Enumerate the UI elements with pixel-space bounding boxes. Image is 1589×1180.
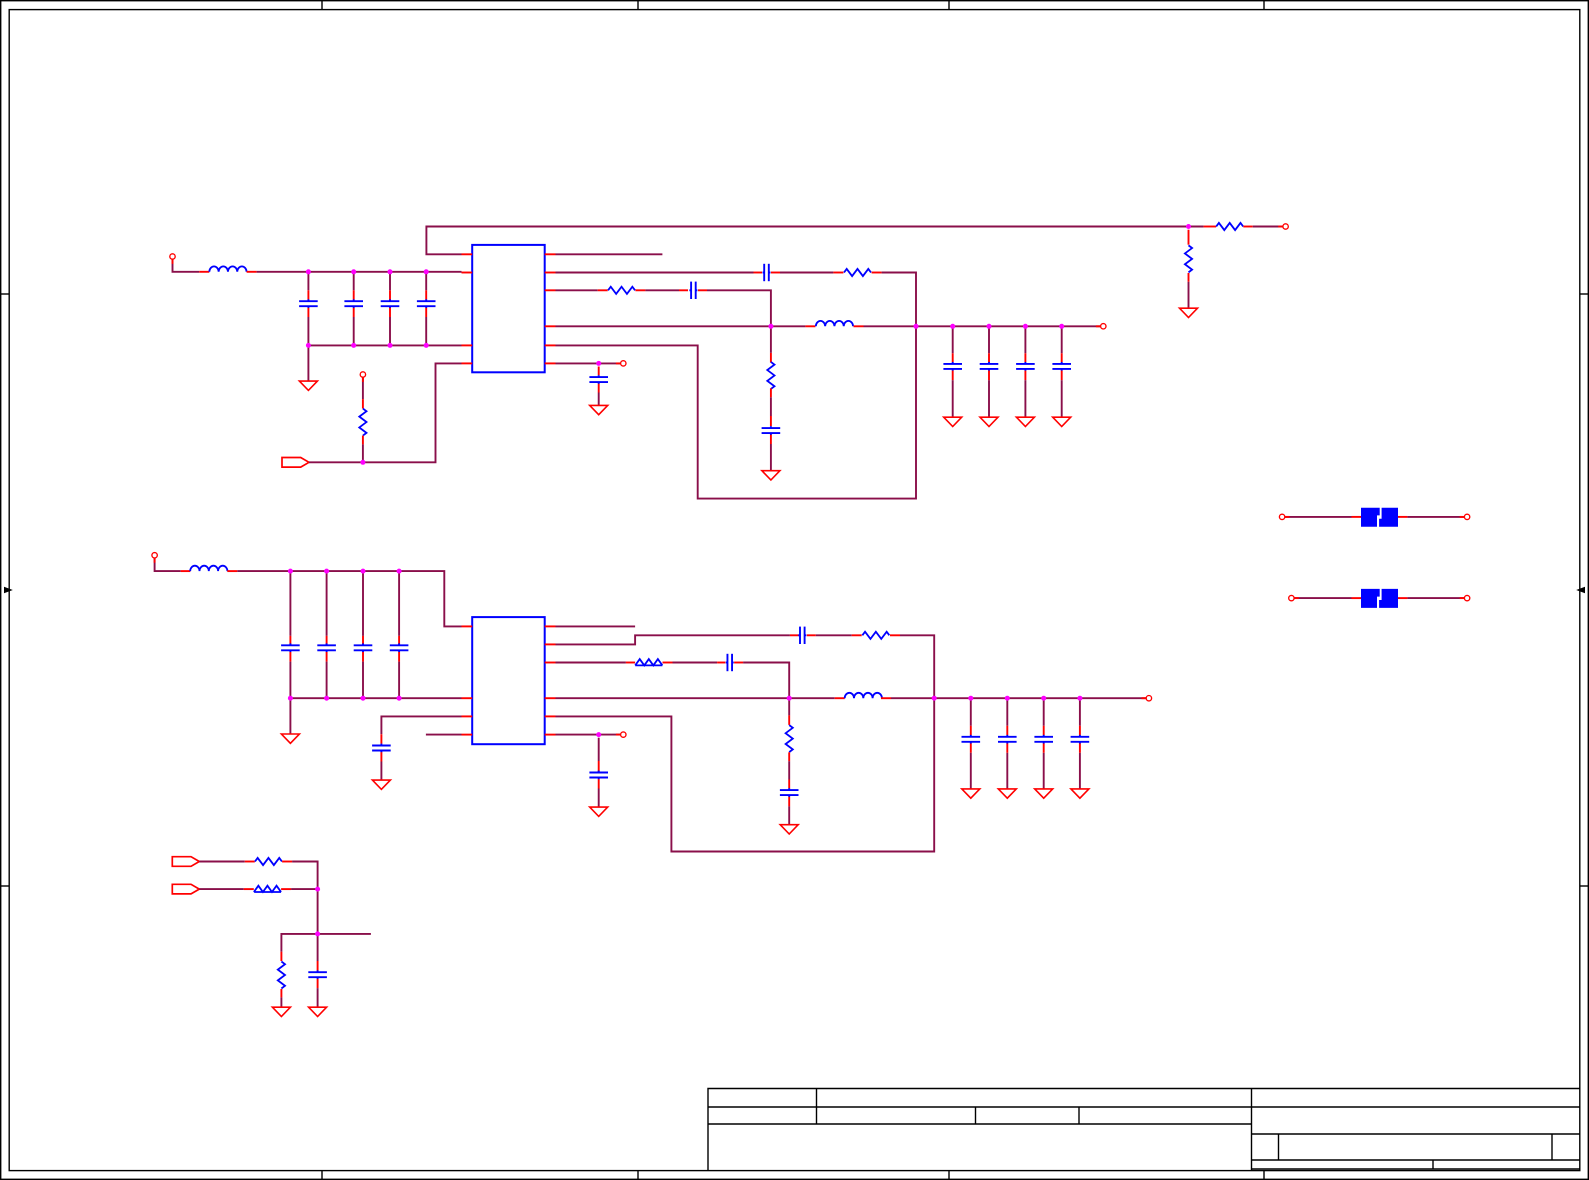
wire C16 top lead (398, 571, 400, 636)
terminal TP4 (616, 734, 621, 736)
wire U2 pin7 to R8 (556, 662, 626, 664)
title block left cell divider A (816, 1089, 818, 1125)
wire lower output rail caps (934, 697, 1146, 699)
resistor R4 (844, 269, 871, 276)
terminal NT1 right (1460, 516, 1465, 518)
ground GND2 (1180, 308, 1198, 317)
border centre arrow left (4, 587, 13, 593)
border zone tick top 1 (321, 1, 323, 10)
title block left row line 2 (708, 1123, 1252, 1125)
wire input rail upper (257, 271, 462, 273)
capacitor C16 (390, 643, 409, 652)
title block right row line 3 (1252, 1159, 1581, 1161)
inductor L3 pin 2 (227, 570, 237, 572)
wire C10 top lead (1061, 326, 1063, 353)
capacitor C2 pin 1 (353, 290, 355, 299)
resistor R10 (255, 858, 282, 865)
wire R4 to output node (882, 273, 916, 327)
wire NT2 left lead (1294, 597, 1351, 599)
wire U1 pin5 stub net (556, 253, 663, 255)
capacitor C8 pin 1 (988, 353, 990, 362)
wire U2 pin3 to C25 (381, 716, 461, 734)
wire C13 bottom lead (289, 662, 291, 699)
ground GND13 (998, 789, 1016, 798)
capacitor C23 (780, 788, 799, 797)
title block right row line 4 (1252, 1168, 1581, 1170)
ground GND9 (281, 734, 299, 743)
capacitor C23 pin 2 (788, 797, 790, 807)
junction J2 J3 (315, 887, 320, 892)
U1 pin 3 stub (left) (462, 344, 473, 346)
wire R7 to loop (900, 635, 934, 698)
wire C15 bottom lead (362, 662, 364, 699)
capacitor C16 pin 1 (398, 636, 400, 645)
capacitor C21 (1034, 735, 1053, 744)
resistor R8 pin 2 (663, 662, 673, 664)
capacitor C3 (381, 299, 400, 308)
junction input rail C1 (306, 269, 311, 274)
wire C17 to R7 (816, 634, 852, 636)
junction node A (768, 324, 773, 329)
capacitor C18 pin 1 (717, 662, 725, 664)
junction lower ground rail C13 (288, 696, 293, 701)
wire C8 bottom lead (988, 380, 990, 417)
capacitor C14 pin 1 (326, 636, 328, 645)
resistor R11 pin 1 (244, 888, 254, 890)
wire C26 to ground (317, 988, 319, 1007)
capacitor C4 pin 2 (425, 308, 427, 317)
inductor L1 pin 1 (199, 271, 209, 273)
wire C20 top lead (1006, 698, 1008, 726)
wire C1 top lead (307, 272, 309, 291)
wire L2 to output junction (864, 325, 917, 327)
capacitor C24 pin 2 (598, 779, 600, 788)
capacitor C24 (589, 771, 608, 780)
wire R2 to ground (1188, 282, 1190, 308)
wire C3 bottom lead (389, 317, 391, 345)
wire divider node stub right (318, 933, 371, 935)
junction pin10 C24 (596, 732, 601, 737)
capacitor C11 (762, 426, 781, 435)
capacitor C17 pin 1 (790, 634, 799, 636)
wire U1 pin9 sense loop (556, 326, 917, 498)
capacitor C15 pin 2 (362, 652, 364, 662)
resistor R7 pin 1 (852, 634, 862, 636)
title block right cell divider A (1278, 1134, 1280, 1160)
capacitor C10 pin 1 (1061, 353, 1063, 362)
wire U1 pin1 feedback top (426, 227, 1203, 255)
capacitor C6 (689, 282, 697, 299)
inductor L2 pin 1 (805, 325, 815, 327)
junction input rail C4 (424, 269, 429, 274)
wire R5 to C6 (645, 289, 679, 291)
wire R8 to C18 (673, 662, 718, 664)
wire L4 to loop junction (891, 697, 934, 699)
resistor R3 pin 1 (1204, 226, 1217, 228)
wire C15 top lead (362, 571, 364, 636)
capacitor C21 pin 1 (1043, 726, 1045, 735)
capacitor C19 pin 1 (970, 726, 972, 735)
border zone tick bottom 1 (321, 1171, 323, 1180)
resistor R4 pin 1 (833, 272, 843, 274)
junction lower ground rail C16 (397, 696, 402, 701)
terminal VIN1 (172, 259, 174, 264)
resistor R12 (278, 962, 285, 989)
wire C25 to ground (380, 762, 382, 781)
wire C7 bottom lead (952, 380, 954, 417)
ground GND4 (980, 417, 998, 426)
junction input rail C2 (351, 269, 356, 274)
junction lower rail C15 (361, 569, 366, 574)
capacitor C8 pin 2 (988, 371, 990, 381)
wire divider node to R12 (281, 934, 317, 952)
junction ground rail C2 (351, 343, 356, 348)
wire J1 to U1 pin 4 (309, 363, 462, 462)
connector J3 (172, 884, 199, 894)
capacitor C25 pin 1 (380, 734, 382, 743)
junction output C8 (987, 324, 992, 329)
wire J2 to R10 (199, 861, 245, 863)
capacitor C19 (962, 735, 981, 744)
wire U2 pin6 to C17 (556, 635, 790, 644)
connector J1 (282, 458, 309, 468)
wire C6 to node A (707, 290, 771, 326)
wire C4 top lead (425, 272, 427, 291)
capacitor C17 pin 2 (807, 634, 816, 636)
wire NT2 right lead (1407, 597, 1464, 599)
capacitor C22 pin 2 (1079, 744, 1081, 753)
junction lower ground rail C15 (361, 696, 366, 701)
wire R6 to C11 (770, 397, 772, 416)
wire C9 bottom lead (1024, 380, 1026, 417)
border zone tick right 1 (1580, 293, 1589, 295)
U2 pin 6 stub (right) (545, 643, 556, 645)
wire C19 bottom lead (970, 753, 972, 789)
border zone tick top 2 (637, 1, 639, 10)
capacitor C15 (354, 643, 373, 652)
title block right row line 1 (1252, 1106, 1581, 1108)
net-tie NT2 pin 2 (1398, 597, 1407, 599)
junction lower output C21 (1041, 696, 1046, 701)
wire lower ground rail drop (289, 698, 291, 734)
capacitor C9 (1016, 362, 1035, 371)
net-tie NT1 (1361, 508, 1398, 527)
wire C11 to ground (770, 444, 772, 471)
wire VIN2 to inductor (155, 558, 181, 571)
U1 pin 5 stub (right top) (545, 253, 556, 255)
border zone tick left 1 (1, 293, 10, 295)
capacitor C22 pin 1 (1079, 726, 1081, 735)
capacitor C26 pin 2 (317, 979, 319, 988)
wire C22 top lead (1079, 698, 1081, 726)
junction lower output C22 (1077, 696, 1082, 701)
resistor R4 pin 2 (872, 272, 882, 274)
resistor R5 pin 2 (635, 289, 645, 291)
border zone tick bottom 4 (1263, 1171, 1265, 1180)
capacitor C9 pin 2 (1024, 371, 1026, 381)
capacitor C6 pin 1 (679, 289, 688, 291)
terminal VIN2 (154, 558, 156, 563)
wire C22 bottom lead (1079, 753, 1081, 789)
resistor R6 pin 2 (770, 388, 772, 397)
capacitor C11 pin 2 (770, 435, 772, 444)
capacitor C20 (998, 735, 1017, 744)
resistor R9 pin 1 (788, 715, 790, 725)
U1 pin 9 stub (right) (545, 344, 556, 346)
connector J2 (172, 857, 199, 867)
junction feedback top (1186, 224, 1191, 229)
U1 pin 10 stub (right bottom) (545, 362, 556, 364)
wire pin10 junction to C24 (598, 738, 600, 761)
net-tie NT2 (1361, 589, 1398, 608)
ground GND6 (1053, 417, 1071, 426)
U2 pin 9 stub (right) (545, 715, 556, 717)
border centre arrow right (1576, 587, 1585, 593)
capacitor C6 pin 2 (698, 289, 707, 291)
resistor R9 (786, 725, 793, 752)
capacitor C5 pin 1 (754, 272, 763, 274)
junction output loop (914, 324, 919, 329)
junction divider node (315, 931, 320, 936)
resistor R3 (1216, 223, 1243, 230)
resistor R10 pin 1 (245, 861, 255, 863)
capacitor C12 pin 1 (598, 367, 600, 376)
wire C23 to ground (788, 806, 790, 824)
junction lower rail C16 (397, 569, 402, 574)
wire U1 pin6 to C5 (556, 272, 754, 274)
capacitor C22 (1071, 735, 1090, 744)
resistor R2 pin 2 (1188, 273, 1190, 282)
ground GND12 (962, 789, 980, 798)
resistor R7 pin 2 (890, 634, 900, 636)
wire TP1 to R1 (362, 377, 364, 399)
resistor R1 pin 1 (362, 399, 364, 408)
ground GND8 (590, 405, 608, 414)
capacitor C12 (589, 375, 608, 384)
wire C10 bottom lead (1061, 380, 1063, 417)
wire J3 to R11 (199, 888, 244, 890)
wire C7 top lead (952, 326, 954, 353)
wire U1 pin8 output rail (556, 325, 806, 327)
capacitor C17 (798, 627, 806, 644)
capacitor C20 pin 2 (1006, 744, 1008, 753)
U1 pin 7 stub (right) (545, 289, 556, 291)
wire C4 bottom lead (425, 317, 427, 345)
inductor L4 pin 2 (881, 697, 891, 699)
capacitor C11 pin 1 (770, 416, 772, 426)
U2 pin 7 stub (right) (545, 662, 556, 664)
inductor L1 (209, 266, 246, 271)
U1 pin 6 stub (right) (545, 272, 556, 274)
resistor R9 pin 2 (788, 752, 790, 761)
resistor R1 pin 2 (362, 436, 364, 445)
capacitor C21 pin 2 (1043, 744, 1045, 753)
U1 pin 2 stub (left) (462, 272, 473, 274)
wire U1 pin10 to TP3 (556, 362, 621, 364)
resistor R2 (1185, 245, 1192, 272)
resistor R3 pin 2 (1243, 226, 1252, 228)
inductor L4 pin 1 (835, 697, 845, 699)
wire C5 to R4 (780, 272, 833, 274)
capacitor C7 pin 2 (952, 371, 954, 381)
border zone tick top 3 (948, 1, 950, 10)
capacitor C3 pin 2 (389, 308, 391, 317)
inductor L2 pin 2 (854, 325, 864, 327)
capacitor C26 pin 1 (317, 961, 319, 971)
resistor R5 pin 1 (598, 289, 608, 291)
junction output C9 (1023, 324, 1028, 329)
wire node B to R9 (788, 698, 790, 715)
wire C19 top lead (970, 698, 972, 726)
junction output C10 (1059, 324, 1064, 329)
wire U2 pin9 sense loop (556, 698, 935, 851)
terminal VOUT2 (1142, 697, 1147, 699)
wire C3 top lead (389, 272, 391, 291)
capacitor C19 pin 2 (970, 744, 972, 753)
title block left cell divider B (975, 1107, 977, 1124)
junction ground rail C1 (306, 343, 311, 348)
net-tie NT1 pin 2 (1398, 516, 1407, 518)
wire divider node to C26 (317, 934, 319, 961)
capacitor C20 pin 1 (1006, 726, 1008, 735)
junction J1 R1 (360, 460, 365, 465)
capacitor C24 pin 1 (598, 761, 600, 772)
wire U2 pin8 output rail (556, 697, 835, 699)
ground GND16 (590, 807, 608, 816)
resistor R5 (608, 287, 635, 294)
U2 pin 4 stub (left bottom) (462, 734, 473, 736)
capacitor C4 (417, 299, 436, 308)
resistor R11 pin 2 (281, 888, 291, 890)
ground GND17 (272, 1007, 290, 1016)
wire VIN1 to inductor (173, 259, 200, 272)
terminal NT1 left (1284, 516, 1289, 518)
U1 pin 1 stub (left top) (462, 253, 473, 255)
wire R1 to junction (362, 444, 364, 462)
U1 pin 4 stub (left bottom) (462, 362, 473, 364)
wire U2 pin4 stub net (426, 734, 462, 736)
U2 pin 1 stub (left top) (462, 625, 473, 627)
capacitor C18 pin 2 (734, 662, 743, 664)
wire R10 to corner (292, 862, 318, 890)
wire C20 bottom lead (1006, 753, 1008, 789)
net-tie NT2 pin 1 (1352, 597, 1362, 599)
IC U1 (472, 245, 545, 372)
capacitor C1 (299, 299, 318, 308)
wire C21 top lead (1043, 698, 1045, 726)
ground GND18 (309, 1007, 327, 1016)
border zone tick right 2 (1580, 885, 1589, 887)
title block left cell divider C (1078, 1107, 1080, 1124)
wire NT1 left lead (1285, 516, 1352, 518)
wire R12 to ground (280, 997, 282, 1007)
capacitor C2 (344, 299, 363, 308)
wire C14 bottom lead (326, 662, 328, 699)
terminal NT2 right (1460, 597, 1465, 599)
wire C2 bottom lead (353, 317, 355, 345)
junction ground rail C4 (424, 343, 429, 348)
wire input rail lower (237, 571, 461, 626)
capacitor C26 (308, 970, 327, 979)
junction ground rail C3 (388, 343, 393, 348)
capacitor C18 (726, 654, 734, 671)
wire R9 to C23 (788, 761, 790, 779)
junction lower rail C13 (288, 569, 293, 574)
capacitor C8 (980, 362, 999, 371)
capacitor C3 pin 1 (389, 290, 391, 299)
junction node B (787, 696, 792, 701)
terminal TP3 (616, 362, 621, 364)
junction lower output C20 (1005, 696, 1010, 701)
wire C21 bottom lead (1043, 753, 1045, 789)
wire C12 to ground (598, 393, 600, 406)
wire U2 pin5 stub net (556, 625, 636, 627)
ground GND10 (372, 780, 390, 789)
border zone tick top 4 (1263, 1, 1265, 10)
U2 pin 2 stub (left) (462, 697, 473, 699)
terminal TP1 (362, 377, 364, 382)
junction lower output loop (932, 696, 937, 701)
title block right cell divider C (1432, 1160, 1434, 1169)
capacitor C7 pin 1 (952, 353, 954, 362)
capacitor C7 (943, 362, 962, 371)
junction pin10 C12 (596, 361, 601, 366)
junction lower output C19 (968, 696, 973, 701)
title block right row line 2 (1252, 1133, 1581, 1135)
resistor R12 pin 2 (280, 989, 282, 997)
U2 pin 10 stub (right bottom) (545, 734, 556, 736)
capacitor C16 pin 2 (398, 652, 400, 662)
capacitor C14 (317, 643, 336, 652)
capacitor C5 pin 2 (771, 272, 780, 274)
terminal TP2 (1278, 226, 1283, 228)
resistor R2 pin 1 (1188, 230, 1190, 245)
wire C9 top lead (1024, 326, 1026, 353)
inductor L3 (190, 566, 227, 571)
wire C14 top lead (326, 571, 328, 636)
title block left row line 1 (708, 1106, 1252, 1108)
junction input rail C3 (388, 269, 393, 274)
U1 pin 8 stub (right) (545, 325, 556, 327)
wire C1 bottom lead (307, 317, 309, 345)
border zone tick left 2 (1, 885, 10, 887)
title block right cell divider B (1551, 1134, 1553, 1160)
wire U1 pin7 to R5 (556, 289, 598, 291)
junction lower rail C14 (324, 569, 329, 574)
capacitor C15 pin 1 (362, 636, 364, 645)
wire ground rail drop (307, 345, 309, 381)
capacitor C13 pin 2 (289, 652, 291, 662)
capacitor C1 pin 1 (307, 290, 309, 299)
capacitor C14 pin 2 (326, 652, 328, 662)
ground GND15 (1071, 789, 1089, 798)
junction output C7 (950, 324, 955, 329)
inductor L1 pin 2 (247, 271, 257, 273)
wire R11 to junction (291, 888, 318, 890)
wire C16 bottom lead (398, 662, 400, 699)
resistor R1 (359, 409, 366, 436)
ground GND7 (762, 471, 780, 480)
IC U2 (472, 617, 545, 744)
junction lower ground rail C14 (324, 696, 329, 701)
wire ground rail lower (290, 697, 461, 699)
capacitor C23 pin 1 (788, 780, 790, 789)
wire U2 pin10 to TP4 (556, 734, 621, 736)
resistor R7 (862, 632, 889, 639)
wire C18 to node B (743, 663, 789, 699)
border zone tick bottom 2 (637, 1171, 639, 1180)
wire junction drop (317, 889, 319, 934)
